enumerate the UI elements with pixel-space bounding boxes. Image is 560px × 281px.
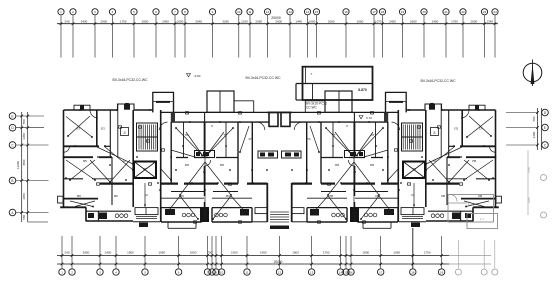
svg-text:550: 550 — [22, 214, 26, 219]
bottom faint grid axis — [481, 240, 487, 275]
right dimension value — [532, 116, 536, 121]
grid axis 1 line — [60, 16, 63, 58]
svg-text:2600: 2600 — [470, 20, 477, 24]
svg-text:1800: 1800 — [363, 251, 370, 255]
left grid line A — [16, 211, 49, 214]
balcony bottom wall — [171, 112, 269, 122]
top dimension value — [295, 20, 302, 24]
svg-text:1440: 1440 — [295, 20, 302, 24]
entrance porch left core — [133, 208, 160, 227]
svg-text:10: 10 — [237, 10, 241, 14]
svg-text:18: 18 — [381, 10, 385, 14]
svg-text:240: 240 — [64, 251, 69, 255]
grid axis 12 line — [266, 16, 269, 58]
meter box left core — [195, 151, 215, 158]
central core top wall — [267, 112, 279, 126]
left dimension value — [22, 159, 26, 166]
right grid line D — [506, 111, 539, 114]
svg-text:2600: 2600 — [275, 20, 282, 24]
bottom grid axis line 5 — [144, 236, 147, 268]
top dimension value — [241, 20, 248, 24]
svg-text:1900: 1900 — [292, 251, 299, 255]
grid axis 17 line — [373, 16, 376, 58]
feeder label center — [245, 76, 281, 80]
svg-text:B9: B9 — [114, 194, 118, 198]
grid bubble 20 — [421, 9, 427, 15]
grid bubble 11 — [247, 9, 253, 15]
svg-text:2650: 2650 — [142, 20, 149, 24]
grid axis 13 line — [289, 16, 292, 58]
left grid bubble C — [9, 142, 16, 149]
bottom grid bubble 7 — [204, 269, 210, 275]
svg-text:1750: 1750 — [120, 20, 127, 24]
left dimension value — [22, 193, 26, 200]
svg-text:21: 21 — [444, 10, 448, 14]
bottom dimension value — [424, 251, 431, 255]
svg-text:2000: 2000 — [328, 20, 335, 24]
top axis dimension line — [57, 24, 498, 30]
bottom grid axis line 18 — [412, 228, 415, 268]
bottom grid bubble 1 — [59, 269, 65, 275]
bay window B — [118, 104, 135, 110]
svg-text:1060: 1060 — [309, 20, 316, 24]
grid axis 9 line — [211, 16, 214, 58]
top dimension value — [255, 20, 262, 24]
bottom grid bubble 6 — [175, 269, 181, 275]
svg-text:1950: 1950 — [393, 251, 400, 255]
core top wall — [134, 109, 153, 111]
elevation mark -0.60 — [187, 74, 201, 79]
building left half — [58, 91, 280, 229]
svg-text:16: 16 — [349, 270, 353, 274]
adjacent building roof rectangle — [296, 67, 373, 100]
grid bubble 16 — [343, 9, 349, 15]
outer wall top unit1 — [64, 109, 119, 111]
feeder label stacked — [306, 102, 327, 110]
bottom grid bubble 19 — [438, 269, 444, 275]
svg-text:12: 12 — [278, 270, 282, 274]
top dimension value — [357, 20, 364, 24]
top dimension value — [222, 20, 229, 24]
grid bubble 17 — [371, 9, 377, 15]
bottom faint grid axis — [492, 240, 498, 275]
bottom grid axis line 10 — [220, 236, 223, 268]
bottom axis dimension line — [57, 255, 491, 257]
grid bubble 7 — [172, 9, 178, 15]
bottom grid bubble 15 — [343, 269, 349, 275]
svg-text:14: 14 — [339, 270, 343, 274]
bottom dimension value — [83, 251, 90, 255]
svg-text:10: 10 — [144, 193, 148, 197]
center roof outline — [207, 91, 254, 112]
svg-text:12: 12 — [266, 10, 270, 14]
bottom grid axis line 11 — [246, 236, 249, 268]
svg-text:M5: M5 — [220, 163, 224, 167]
svg-text:2400: 2400 — [532, 131, 536, 138]
svg-text:1650: 1650 — [190, 251, 197, 255]
meter box central core — [258, 151, 278, 158]
svg-text:K3: K3 — [76, 127, 80, 131]
top overall dimension 20000 — [271, 16, 281, 20]
wire — [145, 126, 249, 222]
bottom grid bubble 8 — [209, 269, 215, 275]
svg-text:7450: 7450 — [527, 166, 531, 173]
balcony unit2 right — [212, 208, 252, 222]
left grid line C — [16, 144, 49, 147]
bottom grid axis line 12 — [278, 236, 281, 268]
interior wall unit1 a — [64, 145, 111, 147]
bottom grid bubble 9 — [213, 269, 219, 275]
grid axis 24 line — [494, 16, 497, 58]
left dimension boundary lines — [22, 112, 48, 222]
top dimension value — [195, 20, 202, 24]
feeder label right — [420, 79, 456, 83]
wire — [97, 147, 134, 171]
central entrance steps — [267, 183, 279, 229]
top dimension value — [389, 20, 396, 24]
wire — [165, 162, 248, 220]
svg-text:3260: 3260 — [222, 20, 229, 24]
left grid bubble E — [9, 113, 16, 120]
svg-text:19: 19 — [440, 270, 444, 274]
svg-text:16: 16 — [344, 10, 348, 14]
interior wall unit1 c — [64, 157, 113, 205]
svg-text:750: 750 — [207, 251, 212, 255]
left dimension value — [22, 133, 26, 140]
grid axis 18 line — [381, 16, 384, 58]
grid axis 2 line — [72, 16, 75, 58]
svg-text:10: 10 — [122, 159, 126, 163]
top dimension value — [432, 20, 439, 24]
svg-text:2450: 2450 — [162, 20, 169, 24]
balcony top wall — [160, 111, 269, 113]
bottom dimension value — [127, 251, 134, 255]
room labels — [76, 124, 252, 198]
top dimension value — [486, 20, 493, 24]
grid bubble 5 — [131, 9, 137, 15]
right dimension value — [532, 131, 536, 138]
bottom dimension value — [260, 251, 267, 255]
bottom grid bubble 18 — [410, 269, 416, 275]
svg-text:14: 14 — [306, 10, 310, 14]
svg-text:17: 17 — [379, 270, 383, 274]
right grid bubble D — [542, 109, 549, 116]
svg-text:4500: 4500 — [22, 159, 26, 166]
bottom grid bubble 14 — [337, 269, 343, 275]
bottom dimension value — [105, 251, 112, 255]
left grid bubble A — [9, 209, 16, 216]
svg-text:47: 47 — [248, 137, 252, 141]
right grid line C — [506, 144, 539, 147]
top dimension value — [64, 20, 69, 24]
bottom grid axis line 13 — [310, 236, 313, 268]
north arrow — [523, 60, 542, 87]
svg-text:2400: 2400 — [105, 251, 112, 255]
bay window A — [74, 105, 90, 110]
grid axis 6 line — [155, 16, 158, 58]
svg-text:T: T — [311, 72, 313, 76]
left grid bubble B — [9, 177, 16, 184]
bay window C — [153, 92, 174, 112]
bottom grid axis line 8 — [211, 236, 214, 268]
svg-text:F-1: F-1 — [468, 202, 473, 206]
grid bubble 18 — [379, 9, 385, 15]
grid bubble 15 — [313, 9, 319, 15]
bottom grid axis line 4 — [115, 236, 118, 268]
bottom wall unit1 — [60, 207, 133, 221]
grid bubble 22 — [460, 9, 466, 15]
svg-text:2600: 2600 — [100, 20, 107, 24]
bottom grid bubble 17 — [378, 269, 384, 275]
svg-text:1750: 1750 — [451, 20, 458, 24]
svg-text:240: 240 — [64, 20, 69, 24]
outer wall left — [63, 110, 65, 208]
grid axis 21 line — [445, 16, 448, 58]
svg-text:1050: 1050 — [177, 20, 184, 24]
bottom dimension value — [64, 251, 69, 255]
svg-text:1190: 1190 — [241, 20, 248, 24]
right grid bubble E — [542, 124, 549, 131]
bottom grid axis line 7 — [206, 236, 209, 268]
bottom wall to central core — [252, 208, 267, 222]
door arc — [64, 110, 265, 166]
top dimension value — [309, 20, 316, 24]
bottom faint grid axis — [455, 240, 461, 275]
grid axis 11 line — [249, 16, 252, 58]
svg-text:4350: 4350 — [527, 196, 531, 203]
grid bubble 23 — [481, 9, 487, 15]
grid bubble 21 — [443, 9, 449, 15]
svg-text:B: B — [11, 179, 13, 183]
svg-text:23: 23 — [483, 10, 487, 14]
svg-text:13: 13 — [310, 270, 314, 274]
svg-text:20000: 20000 — [274, 260, 283, 264]
bottom dimension value — [207, 251, 212, 255]
svg-text:B5: B5 — [83, 159, 87, 163]
bottom dimension value — [323, 251, 330, 255]
grid bubble 8 — [182, 9, 188, 15]
wire — [66, 116, 93, 138]
grid axis 19 line — [401, 16, 404, 58]
svg-text:5.70: 5.70 — [366, 116, 372, 120]
grid bubble 19 — [399, 9, 405, 15]
bottom overall dimension line — [57, 260, 491, 264]
svg-text:1950: 1950 — [158, 251, 165, 255]
svg-text:1340: 1340 — [486, 20, 493, 24]
socket and switch blobs — [63, 109, 268, 206]
bottom dimension value — [231, 251, 238, 255]
grid axis 7 line — [174, 16, 177, 58]
svg-text:1750: 1750 — [323, 251, 330, 255]
svg-text:1950: 1950 — [260, 251, 267, 255]
svg-text:2640: 2640 — [195, 20, 202, 24]
grid bubble 3 — [92, 9, 98, 15]
switch boxes — [97, 103, 242, 223]
bottom grid bubble 13 — [308, 269, 314, 275]
right grid bubble C — [542, 142, 549, 149]
svg-text:B9: B9 — [180, 194, 184, 198]
stairs left core — [137, 123, 158, 151]
bottom grid bubble 5 — [142, 269, 148, 275]
balcony unit2 left — [161, 208, 202, 229]
grid axis 22 line — [462, 16, 465, 58]
svg-text:T9: T9 — [184, 133, 188, 137]
grid bubble 4 — [109, 9, 115, 15]
svg-text:T9: T9 — [223, 133, 227, 137]
bottom grid bubble 12 — [276, 269, 282, 275]
svg-text:BV-3x16-PC32-CC.WC: BV-3x16-PC32-CC.WC — [420, 79, 456, 83]
grid bubble 14 — [304, 9, 310, 15]
top dimension value — [375, 20, 382, 24]
svg-text:1:7: 1:7 — [480, 217, 484, 221]
top dimension value — [81, 20, 88, 24]
wire — [171, 127, 234, 157]
grid bubble 24 — [492, 9, 498, 15]
svg-text:CC.WC: CC.WC — [306, 106, 317, 110]
svg-text:20: 20 — [422, 10, 426, 14]
interior walls unit2 — [171, 112, 252, 222]
core wall left — [133, 110, 161, 222]
grid axis 14 line — [306, 16, 309, 58]
top dimension value — [275, 20, 282, 24]
building right half mirrored — [280, 91, 502, 229]
svg-text:19: 19 — [401, 10, 405, 14]
svg-text:2450: 2450 — [389, 20, 396, 24]
bottom dimension value — [190, 251, 197, 255]
svg-text:B9: B9 — [226, 194, 230, 198]
wire — [70, 201, 95, 207]
bottom dimension value — [292, 251, 299, 255]
bottom grid bubble 11 — [244, 269, 250, 275]
top dimension value — [410, 20, 417, 24]
svg-text:15: 15 — [315, 10, 319, 14]
top dimension value — [451, 20, 458, 24]
svg-text:11: 11 — [248, 10, 251, 14]
grid bubble 1 — [58, 9, 64, 15]
top dimension value — [162, 20, 169, 24]
svg-text:E: E — [11, 114, 13, 118]
corridor wall band — [100, 184, 267, 192]
grid bubble 6 — [153, 9, 159, 15]
bottom grid bubble 16 — [348, 269, 354, 275]
svg-text:550: 550 — [22, 119, 26, 124]
bottom grid axis line 17 — [379, 236, 382, 268]
bottom dimension value — [158, 251, 165, 255]
bottom grid axis line 1 — [61, 236, 64, 268]
left overall dimension 13200 — [16, 161, 20, 169]
top dimension value — [470, 20, 477, 24]
elevator left — [134, 162, 156, 179]
svg-text:1070: 1070 — [375, 20, 382, 24]
bottom grid axis line 3 — [99, 236, 102, 268]
right grid line E — [506, 126, 539, 129]
ground patio right end — [448, 195, 498, 229]
svg-text:3450: 3450 — [22, 133, 26, 140]
svg-text:E3: E3 — [101, 127, 105, 131]
svg-text:22: 22 — [461, 10, 465, 14]
grid bubble 2 — [70, 9, 76, 15]
svg-text:13200: 13200 — [16, 161, 20, 169]
svg-text:-0.60: -0.60 — [194, 74, 201, 78]
top dimension value — [142, 20, 149, 24]
bottom grid axis line 6 — [177, 236, 180, 268]
svg-text:2050: 2050 — [255, 20, 262, 24]
grid axis 23 line — [483, 16, 486, 58]
bottom grid axis line 15 — [345, 236, 348, 268]
grid bubble 9 — [209, 9, 215, 15]
grid bubble 13 — [287, 9, 293, 15]
grid bubble 10 — [236, 9, 242, 15]
svg-text:17: 17 — [372, 10, 376, 14]
stair treads — [137, 125, 158, 150]
grid axis 5 line — [133, 16, 136, 58]
bottom grid axis line 16 — [350, 236, 353, 268]
left dimension value — [22, 214, 26, 219]
left grid line E — [16, 115, 44, 118]
svg-text:DT: DT — [143, 167, 147, 171]
svg-text:3400: 3400 — [81, 20, 88, 24]
svg-text:24: 24 — [493, 10, 497, 14]
svg-text:1900: 1900 — [231, 251, 238, 255]
top dimension value — [120, 20, 127, 24]
grid axis 16 line — [345, 16, 348, 58]
left grid bubble D — [9, 124, 16, 131]
elevation mark 5.70 — [359, 116, 372, 121]
grid axis 3 line — [94, 16, 97, 58]
grid axis 20 line — [423, 16, 426, 58]
interior wall unit1 b — [97, 104, 118, 157]
bottom grid bubble 10 — [218, 269, 224, 275]
left dimension value — [22, 119, 26, 124]
svg-text:B9: B9 — [77, 194, 81, 198]
svg-text:2060: 2060 — [357, 20, 364, 24]
bottom grid axis line 9 — [215, 236, 218, 268]
grid axis 8 line — [184, 16, 187, 58]
svg-text:18: 18 — [411, 270, 415, 274]
svg-text:2600: 2600 — [410, 20, 417, 24]
svg-text:E: E — [544, 126, 546, 130]
svg-text:13: 13 — [288, 10, 292, 14]
bottom grid bubble 2 — [69, 269, 75, 275]
svg-text:3050: 3050 — [83, 251, 90, 255]
svg-text:1900: 1900 — [127, 251, 134, 255]
bottom grid bubble 4 — [113, 269, 119, 275]
bottom grid axis line 2 — [71, 236, 74, 268]
feeder label left — [112, 78, 148, 82]
interior wall unit2 mid — [161, 158, 252, 199]
bottom dimension value — [393, 251, 400, 255]
svg-text:2450: 2450 — [432, 20, 439, 24]
bottom dimension value — [363, 251, 370, 255]
svg-text:4350: 4350 — [22, 193, 26, 200]
right dimension boundary lines — [538, 108, 542, 150]
svg-text:550: 550 — [532, 116, 536, 121]
svg-text:BV-3x16-PC32-CC.WC: BV-3x16-PC32-CC.WC — [112, 78, 148, 82]
balcony unit1 — [86, 211, 131, 221]
outside planter box — [58, 196, 63, 203]
left grid line B — [16, 179, 49, 182]
svg-text:11: 11 — [245, 270, 248, 274]
grid axis 10 line — [238, 16, 241, 58]
right faint dimension continuation — [527, 150, 547, 218]
svg-text:BV-3x16-PC32-CC.WC: BV-3x16-PC32-CC.WC — [245, 76, 281, 80]
bottom grid axis line 19 — [440, 236, 443, 268]
svg-text:M5: M5 — [185, 163, 189, 167]
svg-text:1750: 1750 — [424, 251, 431, 255]
party wall bottom bay — [200, 207, 209, 222]
bottom grid bubble 3 — [97, 269, 103, 275]
grid axis 4 line — [111, 16, 114, 58]
